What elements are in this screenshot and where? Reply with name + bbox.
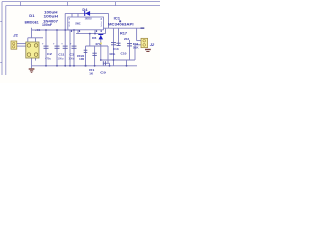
- capacitor C10 plates: [111, 43, 116, 45]
- wire cap C2 vertical: [45, 30, 47, 66]
- wire cap C3 vertical riser: [64, 13, 66, 65]
- wire C9 horizontal: [103, 62, 110, 64]
- border tick left 1: [0, 21, 2, 23]
- IC pin numbers left: [69, 19, 81, 27]
- wire connector pin2 stub: [135, 44, 141, 46]
- capacitor C11 plates: [55, 46, 60, 48]
- svg-text:C13: C13: [113, 47, 119, 51]
- wire J1 pin1: [17, 43, 26, 45]
- ground symbol right: [145, 49, 151, 52]
- wire B+ rail: [32, 29, 81, 31]
- border tick left 2: [0, 62, 2, 64]
- op-amp style IC box U1 MC34063: [68, 17, 104, 30]
- svg-text:C11: C11: [58, 53, 64, 57]
- wire bridge bottom stub right: [35, 58, 37, 61]
- wire output rail: [103, 27, 144, 29]
- capacitor CT plates: [92, 53, 96, 55]
- svg-text:C2: C2: [47, 52, 52, 56]
- net tick mark: [119, 20, 121, 22]
- svg-text:100nF: 100nF: [42, 23, 52, 27]
- bridge rectifier D1 body: [26, 42, 39, 58]
- svg-text:J2: J2: [150, 43, 155, 47]
- capacitor C9 plates: [103, 61, 105, 65]
- diode D6: [98, 35, 103, 40]
- wire IC top stub pin8: [71, 13, 73, 17]
- sheet border outer top: [2, 1, 160, 3]
- IC pin number marks below box: [71, 30, 102, 32]
- wire comparator vertical: [107, 46, 109, 63]
- wire C4 vertical: [129, 40, 131, 60]
- svg-text:100uH: 100uH: [44, 15, 59, 19]
- svg-text:IC1: IC1: [114, 17, 121, 21]
- wire top rail V-switch: [65, 12, 108, 14]
- svg-text:D4: D4: [82, 8, 87, 12]
- svg-text:C9: C9: [100, 70, 106, 74]
- connector J1 body: [11, 41, 17, 49]
- svg-text:100u: 100u: [69, 57, 75, 60]
- wire sense horizontal: [86, 45, 109, 47]
- polarity plus marks: [42, 43, 72, 46]
- diode D4: [85, 11, 90, 16]
- svg-text:1R0: 1R0: [79, 57, 85, 61]
- capacitor C4 plates: [127, 44, 132, 46]
- tiny yellow mark: [100, 43, 102, 45]
- svg-text:100u: 100u: [58, 57, 64, 60]
- wire ac horizontal: [28, 37, 43, 39]
- wire divider vertical: [118, 28, 120, 46]
- svg-text:C10: C10: [121, 51, 127, 55]
- wire connector riser: [136, 28, 138, 40]
- svg-text:J1: J1: [13, 34, 18, 38]
- svg-text:51K: 51K: [133, 46, 139, 50]
- wire D6 vertical: [100, 34, 102, 60]
- svg-text:C3: C3: [69, 53, 74, 57]
- wire bridge minus drop: [31, 58, 33, 68]
- border tick top 1: [20, 2, 22, 6]
- wire R1 vertical: [94, 46, 96, 66]
- wire corner drop to output rail: [108, 13, 110, 28]
- rail end dash: [141, 27, 145, 29]
- wire connector pin1 stub: [137, 40, 141, 42]
- svg-text:1K: 1K: [89, 71, 93, 75]
- capacitor C3 plates: [63, 46, 68, 48]
- svg-text:470u: 470u: [45, 57, 51, 60]
- wire C9 drop: [109, 63, 111, 66]
- wire IC ground pin drop: [69, 30, 71, 66]
- wire bridge plus riser: [31, 28, 33, 38]
- wire J1 pin2: [17, 45, 26, 47]
- wire D6 anode stub: [89, 34, 91, 46]
- wire bridge top stub right: [35, 38, 37, 42]
- svg-text:+C1: +C1: [35, 28, 41, 32]
- IC pin numbers right: [101, 19, 103, 27]
- wire sense cap vertical: [85, 46, 87, 66]
- sheet border outer left: [1, 2, 3, 75]
- svg-text:SWC: SWC: [75, 23, 81, 25]
- svg-text:R17: R17: [120, 31, 127, 35]
- wire cap C11 vertical: [56, 30, 58, 66]
- svg-text:100n: 100n: [109, 52, 115, 56]
- wire mid rail drop from output: [105, 28, 107, 33]
- svg-text:MC34063API: MC34063API: [108, 23, 134, 27]
- svg-text:D1: D1: [29, 14, 34, 18]
- wire mid rail: [76, 33, 106, 35]
- capacitor C8 plates: [72, 46, 77, 48]
- svg-text:D6: D6: [92, 36, 97, 40]
- capacitor C2 plates: [44, 46, 49, 48]
- wire pin2 ground vertical: [134, 45, 136, 60]
- svg-text:1N5819: 1N5819: [85, 17, 92, 20]
- svg-text:2K4: 2K4: [124, 37, 130, 41]
- sheet border inner left: [5, 6, 7, 75]
- svg-text:BRIDGE1: BRIDGE1: [25, 20, 39, 24]
- border tick top 2: [67, 2, 69, 6]
- sheet border inner top: [6, 5, 160, 7]
- wire bridge top stub left: [27, 38, 29, 42]
- wire ground rail: [32, 65, 138, 67]
- wire feedback horizontal: [101, 59, 135, 61]
- svg-text:R4: R4: [133, 42, 139, 46]
- resistor divider plates: [116, 43, 120, 45]
- wire IC top stub pin7: [77, 13, 79, 17]
- output connector J2 body: [141, 38, 148, 47]
- ground symbol left: [29, 68, 35, 73]
- border tick top 3: [115, 2, 117, 6]
- wire IC pin stub: [94, 30, 96, 34]
- wire R17 branch vertical: [113, 28, 115, 66]
- capacitor C5 plates: [84, 50, 88, 52]
- wire IC pin5 stub: [77, 30, 79, 34]
- wire cap C8 vertical: [73, 30, 75, 66]
- wire feedback drop to ground: [126, 60, 128, 66]
- junction dots: [45, 29, 127, 67]
